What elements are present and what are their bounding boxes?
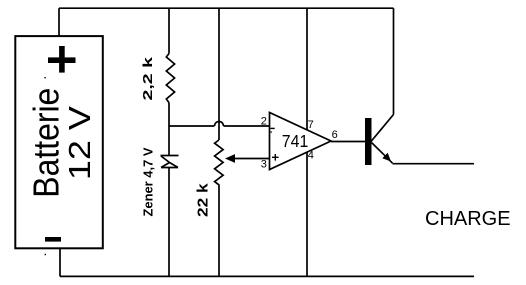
svg-text:12 V: 12 V [62, 106, 97, 180]
svg-text:6: 6 [332, 129, 338, 141]
svg-text:2,2 k: 2,2 k [140, 56, 155, 101]
svg-text:7: 7 [308, 119, 314, 131]
svg-text:4: 4 [308, 150, 314, 162]
svg-text:Zener 4,7 V: Zener 4,7 V [140, 147, 155, 216]
svg-text:3: 3 [261, 158, 267, 170]
svg-text:741: 741 [282, 131, 309, 151]
svg-text:CHARGE: CHARGE [425, 208, 511, 230]
svg-text:22 k: 22 k [196, 182, 212, 217]
svg-text:Batterie: Batterie [26, 88, 67, 198]
svg-text:2: 2 [261, 116, 267, 128]
